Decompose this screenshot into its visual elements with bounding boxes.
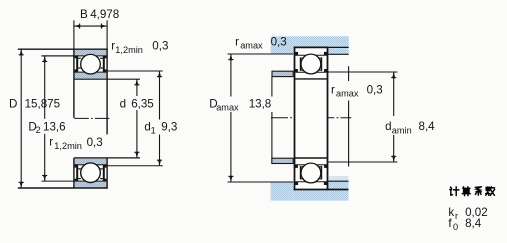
- shield right (top section): [103, 55, 105, 71]
- label d 6,35: [117, 96, 157, 110]
- D2 dimension line (drawn over label above): [44, 56, 46, 181]
- B arrow left: [74, 24, 80, 27]
- svg-text:1: 1: [151, 125, 156, 135]
- d dimension line: [136, 79, 138, 158]
- d arrow top: [135, 79, 138, 85]
- damin dimension line: [393, 72, 395, 162]
- B extension line left: [73, 20, 75, 49]
- shield right (bottom section): [103, 165, 105, 181]
- bearing left edge (upper part): [73, 49, 75, 118]
- band corner notches (top section): [295, 52, 298, 55]
- svg-text:0,3: 0,3: [271, 36, 287, 49]
- heading 计算系数 (calculation factors): [450, 187, 495, 196]
- svg-text:0: 0: [453, 222, 458, 232]
- Damax dimension line: [230, 54, 232, 182]
- bore line top (right view): [295, 78, 328, 80]
- bearing left edge (lower part): [73, 158, 75, 189]
- D arrow bottom: [20, 182, 23, 188]
- shaft shoulder piece top-left: [272, 71, 293, 76]
- B dimension line: [74, 25, 107, 27]
- shaft block top edge right: [328, 180, 348, 182]
- svg-text:6,35: 6,35: [131, 98, 154, 111]
- outer ring bottom band top edge + D2 bottom extension: [42, 180, 107, 182]
- housing shoulder edge right (Da level): [328, 53, 348, 55]
- inner ring band bottom edge (bottom section) + d1 bottom level: [74, 164, 106, 166]
- bearing top edge + D top extension line: [18, 48, 108, 50]
- svg-text:amax: amax: [240, 40, 263, 50]
- svg-text:0,3: 0,3: [367, 83, 383, 96]
- B extension line right: [106, 20, 108, 49]
- shield left (bottom section): [76, 165, 78, 181]
- shaft shoulder piece bottom-left: [272, 158, 293, 163]
- bearing top edge: [294, 46, 329, 48]
- svg-text:8,4: 8,4: [419, 120, 436, 133]
- bearing right edge: [327, 47, 329, 191]
- ball (bottom section): [81, 163, 101, 183]
- B arrow right: [101, 24, 107, 27]
- shield left (top section): [76, 55, 78, 71]
- svg-text:D: D: [9, 98, 17, 111]
- svg-text:d: d: [385, 120, 391, 133]
- shield right (top section, right view): [321, 57, 323, 71]
- bearing body (white): [294, 47, 328, 191]
- housing bore line right of bearing: [328, 46, 348, 48]
- svg-text:B: B: [80, 8, 88, 21]
- shaft block right part: [328, 181, 348, 200]
- Damax arrow bottom: [229, 176, 232, 182]
- label r1,2min 0,3 (bottom): [46, 134, 104, 152]
- label damin 8,4: [384, 116, 436, 135]
- D arrow top: [20, 49, 23, 55]
- Damax arrow top: [229, 54, 232, 60]
- inner ring band top edge (top section) + d1 top extension: [74, 71, 106, 73]
- bearing bottom edge + extension right: [294, 189, 349, 191]
- label D2 13,6: [26, 119, 70, 134]
- label ramax 0,3 (right): [330, 81, 384, 101]
- d1 arrow top: [158, 71, 161, 77]
- svg-text:4,978: 4,978: [90, 8, 119, 21]
- label D 15,875: [7, 97, 20, 110]
- light sleeve strip bottom-right: [329, 176, 349, 181]
- svg-text:amin: amin: [392, 126, 412, 136]
- bore line bottom + d bottom extension: [74, 157, 140, 159]
- inner band edge (bottom section, right view): [295, 164, 326, 166]
- svg-text:8,4: 8,4: [465, 217, 482, 230]
- da bottom extension line: [328, 161, 398, 163]
- svg-text:13,6: 13,6: [43, 120, 66, 133]
- outer ring bottom band (blue): [74, 181, 106, 187]
- inner ring band (bottom section): [74, 158, 106, 164]
- inner ring band (top section): [74, 72, 106, 79]
- svg-text:r: r: [331, 83, 335, 96]
- ball (top section, right view): [301, 54, 321, 74]
- d1 dimension line: [159, 71, 161, 166]
- shaft block top edge left: [228, 181, 294, 183]
- svg-text:9,3: 9,3: [161, 121, 177, 134]
- shaft end face line: [271, 77, 273, 159]
- D dimension line: [20, 49, 22, 188]
- centerline (left view axis): [74, 117, 111, 119]
- shield left (top section, right view): [300, 57, 302, 71]
- svg-text:1,2min: 1,2min: [54, 141, 82, 151]
- svg-text:0,3: 0,3: [152, 39, 168, 52]
- outer band edge (bottom section, right view): [295, 181, 326, 183]
- band corner notches (bottom section): [295, 182, 298, 185]
- Damax top extension line: [228, 53, 294, 55]
- bore line top + d top extension: [74, 78, 140, 80]
- ball (top section): [81, 54, 101, 74]
- bearing right edge (upper part): [106, 49, 108, 134]
- svg-text:r: r: [49, 136, 53, 149]
- shaft block under bearing: [293, 189, 328, 200]
- shoulder projection tick: [348, 66, 350, 166]
- outer band edge (top section, right view): [295, 54, 326, 56]
- shaft block bottom-left part: [271, 183, 294, 201]
- svg-text:2: 2: [36, 125, 41, 135]
- svg-text:1,2min: 1,2min: [115, 45, 143, 55]
- right view axis line: [271, 117, 351, 119]
- d1 arrow bottom: [158, 160, 161, 166]
- damin arrow bottom: [392, 156, 395, 162]
- band corner blobs (bottom section, left view): [75, 165, 78, 168]
- D2 arrow top: [43, 56, 46, 62]
- band corner blobs (top section, left view): [75, 56, 78, 59]
- shield right (bottom section, right view): [321, 166, 323, 180]
- shield left (bottom section, right view): [300, 166, 302, 180]
- svg-text:15,875: 15,875: [25, 98, 60, 111]
- svg-text:0,3: 0,3: [87, 136, 103, 149]
- damin arrow top: [392, 72, 395, 78]
- d1 top extension line: [107, 70, 163, 72]
- svg-text:amax: amax: [336, 89, 359, 99]
- bearing bottom edge + D bottom extension line: [18, 187, 108, 189]
- char 系: [475, 187, 481, 196]
- d1 bottom extension line: [107, 165, 163, 167]
- char 数: [486, 187, 495, 196]
- label d1 9,3: [142, 120, 177, 135]
- D2 arrow bottom: [43, 175, 46, 181]
- bearing left edge: [294, 47, 296, 191]
- char 算: [462, 187, 470, 196]
- ball (bottom section, right view): [301, 163, 321, 183]
- svg-text:d: d: [120, 98, 126, 111]
- svg-text:r: r: [455, 211, 458, 221]
- inner band edge (top section, right view): [295, 71, 326, 73]
- bore line bottom (right view): [295, 157, 328, 159]
- svg-text:r: r: [235, 35, 239, 48]
- outer ring top band (blue): [74, 50, 106, 56]
- svg-text:13,8: 13,8: [249, 98, 272, 111]
- d arrow bottom: [135, 152, 138, 158]
- label Damax 13,8: [207, 97, 273, 113]
- housing block (stippled): [271, 36, 349, 54]
- D2 top extension: [42, 55, 74, 57]
- da top extension line: [328, 71, 398, 73]
- char 计: [450, 187, 459, 196]
- outer ring top band lower edge: [42, 55, 107, 57]
- svg-text:amax: amax: [216, 103, 239, 113]
- bearing right edge (lower part): [106, 158, 108, 189]
